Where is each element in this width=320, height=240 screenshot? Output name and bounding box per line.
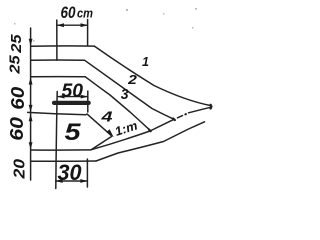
wire: core lower edge to toe [92,137,112,150]
wire: core top thick line [54,101,89,105]
wire: slope line 1 (crest to apex) [95,46,211,105]
wire: horizontal line level 2 [31,59,85,61]
arrowhead: 30 dim left [55,179,63,183]
wire: 60cm right tick [87,20,89,46]
wire: crest top line [31,45,95,47]
node: apex of profile [209,105,212,109]
node: junction of line 2 and boundary [173,119,175,120]
svg-text:4: 4 [100,109,113,126]
wire: horizontal line level 3 [31,76,86,78]
svg-text:3: 3 [121,86,129,103]
arrowhead: 30 dim right [80,179,88,183]
node: junction of line 3 and boundary [149,130,151,132]
svg-text:25: 25 [9,33,25,53]
wire: 50-dim right tick [87,91,89,112]
wire: mid horizontal line (core shoulder level) [28,112,86,114]
noise specks [14,8,197,42]
wire: boundary dot [184,113,187,115]
wire: left vertical dimension line [30,28,32,180]
wire: 50 dimension line [57,96,87,98]
svg-text:30: 30 [58,160,83,185]
wire: 60cm left tick [56,20,58,60]
arrowhead: 50 dim right [81,95,89,99]
wire: 60cm dimension line [57,24,88,26]
svg-text:25: 25 [8,54,24,74]
arrowhead: 60cm dim right [81,23,89,27]
svg-text:2: 2 [127,72,138,87]
svg-text:5: 5 [65,119,81,146]
svg-text:60: 60 [7,86,28,110]
svg-text:50: 50 [62,81,84,102]
arrowhead: 60cm dim left [57,23,65,27]
wire: lower ground line [31,160,96,162]
wire: lower layer diagonal to right [96,122,205,161]
wire: core right slope 1:m [87,114,111,135]
svg-text:cm: cm [77,7,93,21]
wire: long vertical at core left / dim ticks x=56.5 [56,92,57,189]
svg-text:60: 60 [6,116,27,141]
arrowhead: left dim down at ground [29,142,33,150]
svg-text:60: 60 [61,3,76,22]
arrowhead: core slope 1:m leader [107,129,114,137]
svg-text:20: 20 [12,159,29,180]
wire: 30 dimension line [56,180,88,182]
wire: boundary dash segment [178,116,183,118]
wire: slope line 2 [85,60,175,119]
wire: boundary solid to apex [189,107,211,113]
wire: lower outer boundary from toe bend up to apex [91,119,174,150]
wire: slope line 3 [85,77,149,130]
arrowhead: left dim up below mid line [29,114,33,122]
arrowhead: left dim down at crest [29,39,33,47]
svg-text:1: 1 [142,54,149,69]
wire: upper ground line [31,149,91,151]
arrowhead: left dim down at mid line [29,105,33,113]
wire: 30-dim right tick / trench right wall [86,159,88,187]
arrowhead: 50 dim left [57,95,65,99]
arrowhead: left dim up at level3 [29,77,33,85]
